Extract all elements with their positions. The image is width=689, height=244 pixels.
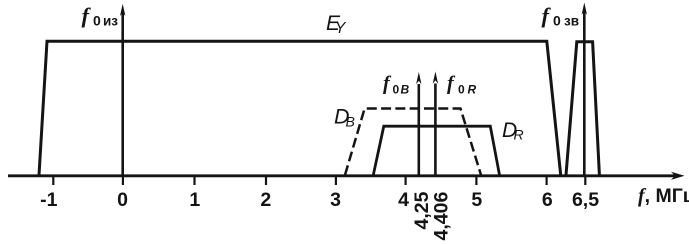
svg-text:3: 3 bbox=[330, 189, 341, 211]
tick 3 bbox=[335, 176, 337, 185]
sound spectrum trapezoid bbox=[566, 42, 599, 175]
tick 6 bbox=[545, 176, 547, 185]
svg-text:из: из bbox=[103, 14, 118, 29]
solid chroma band D_R bbox=[373, 126, 499, 175]
svg-text:f, МГц: f, МГц bbox=[638, 185, 689, 207]
luminance spectrum trapezoid E_Y bbox=[39, 41, 561, 175]
svg-text:4,406: 4,406 bbox=[431, 192, 453, 241]
svg-text:5: 5 bbox=[471, 189, 482, 211]
image carrier arrow f0из at 0 MHz bbox=[121, 12, 124, 175]
svg-text:0: 0 bbox=[393, 83, 400, 97]
tick 5 bbox=[475, 176, 477, 185]
chroma B carrier arrow f0B at 4.25 MHz bbox=[417, 84, 420, 175]
frequency axis f bbox=[8, 174, 678, 177]
svg-text:Y: Y bbox=[335, 20, 347, 37]
tick 6.5 bbox=[584, 176, 586, 185]
tick 4 bbox=[405, 176, 407, 185]
tick 2 bbox=[265, 176, 267, 185]
svg-text:0: 0 bbox=[458, 83, 465, 97]
tick -1 bbox=[52, 176, 54, 185]
svg-text:B: B bbox=[346, 114, 355, 130]
tick 0 bbox=[122, 176, 124, 185]
svg-text:зв: зв bbox=[564, 14, 579, 29]
svg-text:1: 1 bbox=[189, 189, 200, 211]
axis arrowhead bbox=[671, 172, 685, 180]
svg-text:2: 2 bbox=[260, 189, 271, 211]
chroma R carrier arrow f0R at 4.406 MHz bbox=[434, 84, 437, 176]
svg-text:4: 4 bbox=[398, 189, 409, 211]
svg-text:-1: -1 bbox=[40, 189, 57, 211]
svg-text:B: B bbox=[401, 83, 410, 97]
dashed chroma band D_B bbox=[345, 109, 481, 176]
svg-text:R: R bbox=[514, 127, 524, 143]
svg-text:0: 0 bbox=[93, 13, 101, 29]
sound carrier arrow f0зв at 6.5 MHz bbox=[583, 11, 586, 175]
svg-text:0: 0 bbox=[117, 189, 128, 211]
tick 1 bbox=[193, 176, 195, 185]
svg-text:0: 0 bbox=[553, 13, 561, 29]
svg-text:6,5: 6,5 bbox=[572, 189, 599, 211]
svg-text:R: R bbox=[468, 83, 477, 97]
svg-text:6: 6 bbox=[542, 189, 553, 211]
